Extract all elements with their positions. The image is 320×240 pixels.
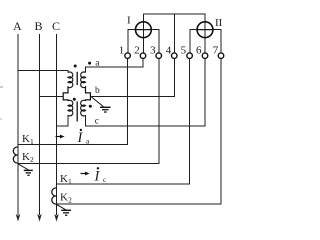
svg-text:4: 4 [166,44,172,56]
wire b: PT secondary middle to terminal 4 [90,59,174,97]
meter II horizontal chord [197,29,213,31]
svg-text:5: 5 [181,44,187,56]
wire phase A vertical [17,34,19,215]
polarity dot secondary lower [89,105,92,108]
svg-text:1: 1 [119,44,125,56]
ground at PT terminal b [92,97,111,112]
svg-text:II: II [215,17,223,29]
svg-text:K1: K1 [22,133,34,146]
svg-text:2: 2 [134,44,140,56]
wire terminal 3 down to K2 lead of CT A [18,59,159,164]
wire c: PT secondary bottom to terminal 6 [86,59,206,126]
ground at CT C [57,204,71,215]
voltage transformer T1 windings [63,72,90,122]
terminal 5 [187,53,193,59]
svg-text:b: b [95,86,100,96]
edge tick mark left 2 [0,119,2,120]
wire terminal 7 down to K2 lead of CT C [57,59,222,204]
svg-text:B: B [35,19,43,33]
svg-text:K2: K2 [60,192,72,205]
wire A to PT primary top [18,71,68,73]
svg-text:A: A [13,19,22,33]
svg-text:3: 3 [150,44,156,56]
svg-text:7: 7 [213,44,219,56]
PT secondary upper winding [81,72,91,101]
meter I horizontal chord [136,29,152,31]
terminal 6 [202,53,208,59]
arrow phase C to load [54,214,59,222]
polarity dot primary upper [74,65,77,68]
svg-text:K2: K2 [22,151,34,164]
svg-text:c: c [103,175,107,184]
wire phase C vertical [56,34,58,215]
svg-text:6: 6 [196,44,202,56]
svg-text:c: c [95,117,99,127]
svg-text:I: I [77,130,84,146]
terminal 1 [125,53,131,59]
ground at CT A [18,164,33,176]
edge tick mark left 1 [0,87,3,88]
polarity dot primary lower [73,98,76,101]
svg-text:C: C [52,19,60,33]
current transformer on phase A secondary coil [13,147,18,163]
PT secondary lower winding [81,100,86,116]
wire meter II vertical through circle to terminal 6 [204,22,206,53]
wire junction top to terminal 4 [173,14,175,53]
current arrow Ia [56,129,91,146]
terminal 3 [156,53,162,59]
terminal 4 [172,53,178,59]
wire meter II horizontal leads to terminals 5 and 7 [190,30,221,53]
polarity dot secondary upper [88,62,91,65]
arrow phase B to load [37,214,42,222]
current arrow Ic [81,167,108,184]
terminal 2 [140,53,146,59]
terminal 7 [218,53,224,59]
wire terminal 1 down to K1 lead of CT A [18,59,128,145]
wire C to PT primary bottom [57,115,69,126]
wire meter I vertical through circle to terminal 2 [142,22,144,53]
meter element I circle [136,22,152,38]
wire B to PT primary middle [40,95,64,97]
PT core upper [76,72,78,85]
wire terminal 5 down to K1 lead of CT C [57,59,190,184]
wire a: PT secondary top to terminal 2 [86,59,144,73]
wire phase B vertical [39,34,41,215]
svg-text:I: I [94,169,101,185]
wire meter top common with junction to terminal 4 [143,14,205,22]
PT core lower [76,102,78,122]
svg-text:I: I [127,15,131,27]
current transformer on phase C secondary coil [52,188,57,204]
svg-text:K1: K1 [60,173,72,186]
meter element II circle [197,22,213,38]
PT primary upper winding [63,72,73,101]
PT primary lower winding [68,100,73,116]
arrow phase A to load [16,214,21,222]
wire meter I horizontal leads to terminals 1 and 3 [128,30,159,53]
